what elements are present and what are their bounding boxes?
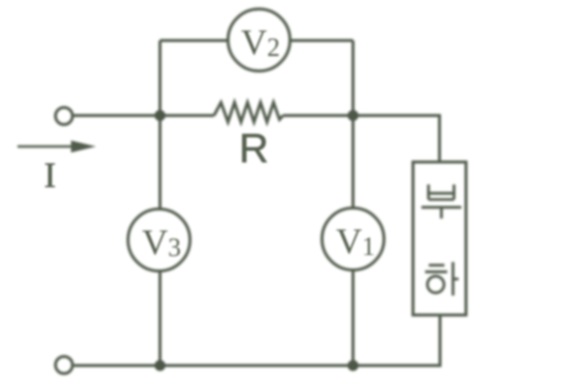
node: junction bottom-left [155, 360, 166, 371]
wire: middle horizontal left segment [73, 114, 214, 117]
wire: top wire left of V2 [160, 39, 228, 42]
terminal: input bottom [56, 357, 73, 374]
label I [44, 154, 56, 196]
wire: left vertical lower (V3 to bottom wire) [159, 271, 162, 366]
wire: bottom horizontal and rise to load box [74, 315, 440, 366]
terminal: input top [56, 108, 73, 125]
wire: right vertical upper (top wire to V1) [352, 41, 355, 209]
voltmeter V1 circle [322, 208, 384, 270]
node: junction middle-left [155, 110, 166, 121]
node: junction middle-right [348, 110, 359, 121]
current arrow I [18, 145, 79, 148]
label V1 [336, 220, 375, 262]
resistor R [214, 103, 283, 123]
load box [413, 162, 466, 315]
label V3 [142, 221, 181, 263]
label R [239, 125, 269, 172]
voltmeter V3 circle [128, 209, 190, 271]
wire: right vertical lower (V1 to bottom wire) [352, 270, 355, 366]
label: Korean 하 (load bottom char) [425, 262, 458, 296]
node: junction bottom-right [348, 360, 359, 371]
wire: left vertical upper (top wire to V3) [159, 41, 162, 210]
label V2 [241, 21, 280, 63]
voltmeter V2 circle [228, 9, 290, 71]
wire: middle horizontal right segment to load box [283, 116, 440, 163]
wire: top wire right of V2 [290, 39, 353, 42]
label: Korean 부 (load top char) [421, 185, 461, 219]
